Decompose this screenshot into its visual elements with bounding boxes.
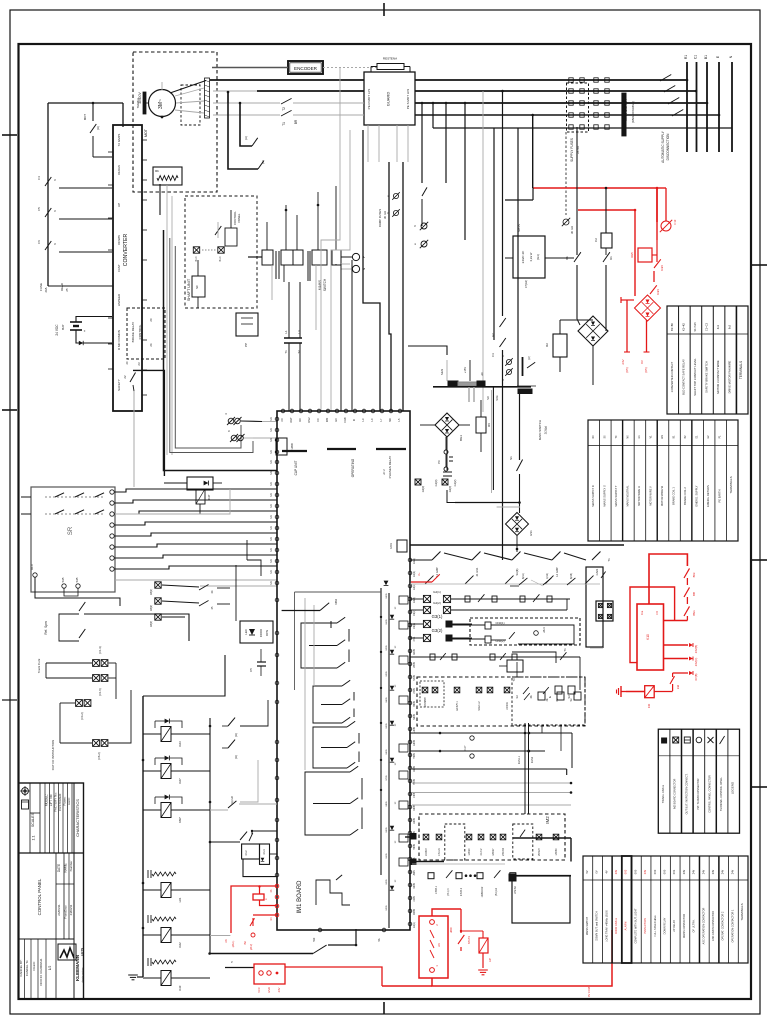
red wire main horiz [533,187,657,189]
svg-text:VCC: VCC [257,987,261,993]
wire f4 [47,189,49,207]
wire corner c [402,162,404,411]
svg-text:KM7: KM7 [178,817,182,823]
svg-text:L1: L1 [284,330,288,334]
svg-text:G3(1): G3(1) [413,584,416,590]
svg-text:25: 25 [65,288,69,292]
IM1 board outline [277,411,410,930]
red left box [254,964,285,993]
svg-text:k4f: k4f [489,958,492,962]
wire drop x446 [445,102,448,183]
wire bottom run3 [210,936,254,968]
svg-text:24V: 24V [722,869,725,874]
svg-text:F6: F6 [37,240,41,244]
red K10 right bottom wire [664,616,688,621]
svg-text:K4F: K4F [178,985,182,990]
svg-text:(B.1) 4: (B.1) 4 [447,888,450,896]
red contact chain [650,255,664,295]
relay K47A edge [390,540,407,552]
red relay gnd [478,953,492,975]
svg-text:Sd: Sd [567,695,571,699]
converter box [113,125,142,411]
capacitor C2 box [594,187,612,255]
svg-text:PE EARTH: PE EARTH [718,489,722,502]
svg-text:Rb: Rb [155,169,159,173]
svg-text:S605: S605 [386,749,388,755]
wire bar drop [519,392,521,460]
CN2 dashed box [470,618,580,645]
svg-text:(C6-2): (C6-2) [97,752,101,759]
svg-text:KA7: KA7 [178,778,182,784]
svg-text:28/4.27: 28/4.27 [539,847,541,855]
contact T1 on W [281,98,364,104]
mains contact N [672,110,720,117]
svg-text:OPERATION CONTACTOR 1: OPERATION CONTACTOR 1 [731,909,734,943]
wire psu vert [227,92,229,103]
svg-text:MOT: MOT [83,114,87,121]
row G2(1) [410,590,570,603]
svg-text:A7.2: A7.2 [382,469,386,475]
svg-text:3,2a W: 3,2a W [529,252,533,261]
svg-text:LED: LED [244,629,248,634]
contact F4 [37,176,57,186]
red wire IM1 left [225,886,277,950]
svg-text:EMERG. SUPPLY: EMERG. SUPPLY [695,485,699,506]
guard bottom gray pins [368,125,408,162]
svg-text:SAFETY: SAFETY [117,379,121,391]
svg-text:S305: S305 [386,905,388,911]
svg-text:TRAVEL CABLE: TRAVEL CABLE [662,784,665,803]
svg-text:BG1: BG1 [459,435,463,441]
red K10 right wires [664,643,699,666]
svg-text:N223: N223 [440,368,444,375]
IM1 inner tiny labels [386,593,388,911]
junction dots brake [227,91,242,105]
psu 24 box [505,224,574,288]
motor M1 circle [149,90,176,119]
svg-text:SHAFT UNIT: SHAFT UNIT [187,278,191,301]
svg-text:C8(2): C8(2) [150,605,153,611]
svg-text:M905: M905 [413,908,416,915]
svg-text:MAINS SUPPLY T: MAINS SUPPLY T [614,485,618,507]
svg-text:1/2090: 1/2090 [469,848,471,856]
IM1 bottom pins [313,928,386,942]
svg-text:(C1-3): (C1-3) [98,646,102,653]
svg-text:GUARD: GUARD [386,92,391,107]
svg-text:NO: NO [487,396,490,400]
SR pins [30,490,114,588]
IM2 inner dashed [420,681,444,707]
svg-text:OPERATING: OPERATING [351,458,355,477]
wire drop x518 [517,128,519,386]
svg-text:MAINS NEUTRAL: MAINS NEUTRAL [625,485,629,507]
svg-text:2B05: 2B05 [413,662,416,668]
svg-text:B6f: B6f [692,592,696,596]
IM1 inner pinboxes [399,596,408,866]
svg-text:MAINS SWITCH: MAINS SWITCH [586,917,589,936]
K47 resistor [196,489,211,504]
control panel sw label [233,211,241,225]
svg-text:FU806: FU806 [291,443,294,451]
svg-text:Track Cont: Track Cont [37,659,41,674]
svg-text:BLD CONTACT SAFE RELAY: BLD CONTACT SAFE RELAY [681,359,685,395]
svg-text:TERMINALS: TERMINALS [740,903,744,920]
svg-text:K47A: K47A [390,543,393,549]
terminal bar drops [440,360,484,381]
svg-text:C7(G1): C7(G1) [525,280,528,288]
svg-text:24V: 24V [277,987,281,992]
red right sub [450,909,471,951]
svg-text:A0: A0 [480,372,484,376]
svg-text:G3(1): G3(1) [432,614,443,619]
logo KLEEMANN LIFTS [58,944,84,983]
terminal bar gray [458,382,477,386]
IM1 left pin labels [270,417,273,585]
svg-text:C1=C2: C1=C2 [705,322,709,331]
trim mark bottom [383,1002,385,1014]
svg-text:S45: S45 [75,577,79,582]
SR label [68,526,74,535]
svg-text:S105: S105 [386,619,388,625]
shaft unit dashed box [185,196,257,308]
svg-text:MOTOR WIRE V: MOTOR WIRE V [648,486,652,506]
cap c5 [249,649,266,676]
svg-text:K1: K1 [609,256,613,260]
svg-text:KLEEMANN: KLEEMANN [75,954,80,981]
caps P6 [437,437,453,471]
svg-text:D0: D0 [298,418,302,422]
res R6 [476,400,491,452]
svg-text:G2(2): G2(2) [413,571,416,577]
svg-text:OPERAT. CONTACTOR 2: OPERAT. CONTACTOR 2 [722,911,725,941]
svg-text:MOT: MOT [144,128,148,137]
lamp pair 1 [37,646,108,673]
svg-text:(B.1)16: (B.1)16 [495,887,498,896]
svg-text:IM2: IM2 [545,816,550,824]
svg-text:24V: 24V [693,869,696,874]
red contact k4d [670,673,680,691]
svg-text:PE R MOT LP1: PE R MOT LP1 [367,88,371,109]
nc symbols pair [378,192,400,227]
encoder label [294,66,318,71]
bus N right [415,114,719,116]
svg-text:C1: C1 [694,55,698,59]
suppressor wires [248,257,352,264]
svg-text:0V COM: 0V COM [587,987,591,997]
svg-text:G1(3): G1(3) [434,480,438,487]
row751 [410,750,545,759]
Sd verts [517,662,561,751]
red A6 top wire [432,909,461,916]
mains phase labels [684,55,733,59]
svg-text:K4/3: K4/3 [660,265,664,271]
svg-text:PANEL: PANEL [237,213,241,222]
wire brake loop outer [228,92,258,169]
svg-text:MODEL:: MODEL: [45,794,49,806]
svg-text:24V: 24V [621,359,625,364]
power pack box [236,313,258,347]
wire corner a [363,130,380,411]
red bus left [285,967,432,986]
svg-text:1/S57.1: 1/S57.1 [435,885,438,894]
terminal bar right [477,381,485,386]
IM1 top pin labels [280,417,401,423]
svg-text:MAINS SUPPLY R: MAINS SUPPLY R [591,485,595,507]
svg-text:T2: T2 [282,107,286,111]
svg-text:BLD: BLD [219,256,222,261]
IM2b dashed box [419,814,565,860]
svg-text:CONVERTER CONTACT: CONVERTER CONTACT [670,361,674,392]
red bottom labels [587,987,591,997]
svg-text:(K5): (K5) [644,367,648,372]
svg-text:G2(1): G2(1) [433,590,441,594]
svg-text:24V: 24V [683,869,686,874]
svg-text:MAIN SWITCH: MAIN SWITCH [538,420,542,440]
converter right ticks [142,140,147,395]
svg-text:PE S MOT LP2: PE S MOT LP2 [406,88,410,109]
testpoint N [341,265,366,272]
title block characteristics header [75,799,80,837]
bus W gray segment [213,102,280,104]
svg-text:G2(1): G2(1) [413,558,416,564]
svg-text:OF ULTRA.: OF ULTRA. [693,919,696,932]
svg-text:L905: L905 [413,896,416,902]
svg-text:A6.3: A6.3 [542,627,546,633]
svg-text:COMPLETE WITH BUT. LIGHT: COMPLETE WITH BUT. LIGHT [634,908,637,943]
OUT row [428,870,571,897]
title block field labels [45,792,72,812]
red relay K45 [630,240,657,262]
red relay small [460,930,488,953]
svg-text:F3: F3 [491,353,495,357]
IM1 inner bottom loop [316,875,350,905]
trim mark top [383,3,385,16]
svg-text:INT. TERMO CONNECTOR: INT. TERMO CONNECTOR [697,778,700,809]
svg-text:CHARACTERISTICS: CHARACTERISTICS [75,799,80,837]
svg-text:20: 20 [149,318,153,322]
shaft contact1 [215,222,221,238]
row1 right box [586,558,611,647]
wire bottom junctions [208,944,357,955]
svg-text:IM1 BOARD: IM1 BOARD [297,880,303,914]
contactor block Q1 [364,57,415,126]
svg-text:24/2C 2C: 24/2C 2C [521,250,525,264]
label mains sw2 [318,278,327,291]
svg-text:5V: 5V [586,870,589,873]
svg-text:21 GS1: 21 GS1 [475,567,479,576]
svg-text:Ref. Spm: Ref. Spm [44,621,48,635]
red contacts right [684,568,690,616]
contact brake A2 [258,160,265,169]
svg-text:CONTROL PANEL: CONTROL PANEL [37,878,42,915]
svg-text:OUT: OUT [289,417,293,423]
svg-text:F1F: F1F [673,219,677,224]
svg-text:2/S74.2: 2/S74.2 [460,887,463,896]
wire switch down [518,474,521,513]
svg-text:2/USB08: 2/USB08 [425,697,427,707]
mains filter block [567,78,627,136]
svg-text:SUPPLY FUSES: SUPPLY FUSES [570,138,574,162]
wire psu drop [576,127,578,255]
svg-text:R6: R6 [487,423,491,427]
svg-text:K10: K10 [646,634,650,640]
red K small left [253,885,277,905]
svg-text:G2(2): G2(2) [433,601,441,605]
svg-text:C8(0): C8(0) [150,621,153,627]
bridge ES1 [506,513,534,553]
suppressor feed wires [267,186,336,250]
wire bundle 1 [115,489,230,514]
svg-text:DOWN RELAY: DOWN RELAY [664,917,667,934]
svg-text:2/M/S2: 2/M/S2 [514,886,517,894]
svg-text:H0: H0 [334,418,338,422]
svg-text:ES1: ES1 [529,530,533,536]
svg-text:S505: S505 [386,723,388,729]
svg-text:R1: R1 [684,55,688,59]
svg-text:S805: S805 [386,801,388,807]
caps P6b [434,472,457,486]
svg-text:DOWN BUT. and SWITCH: DOWN BUT. and SWITCH [596,911,599,941]
brake relay dashed box [127,308,165,359]
svg-text:SAFETY BRAKE SWITCH: SAFETY BRAKE SWITCH [705,361,709,393]
mains filter labels [570,99,635,162]
motor termal bar [136,92,149,114]
svg-text:9A/S75.1: 9A/S75.1 [456,701,459,711]
svg-text:T1: T1 [563,648,567,652]
svg-text:0V: 0V [640,360,644,364]
IM1 inner loop 2 [313,680,354,723]
wire x504 down [502,350,504,560]
svg-text:FU?: FU? [464,745,467,750]
svg-text:3M~: 3M~ [158,99,164,109]
bridge wires [420,425,470,470]
red nc symbol [657,188,677,232]
battery wires [76,317,112,346]
bus brake gray [213,114,280,116]
svg-text:ALARM: ALARM [625,922,628,931]
svg-text:FrancEsco: FrancEsco [64,905,68,919]
svg-text:S/G2-1.2: S/G2-1.2 [479,701,481,711]
bus R right [415,79,687,81]
svg-text:24V: 24V [712,869,715,874]
svg-text:4x1: 4x1 [716,324,720,329]
row G3(1) [410,614,472,628]
red arrow row3 [673,671,698,680]
brake relay labels [131,318,153,347]
wire f6 to conv [48,253,112,286]
bus V to contactor [213,90,364,92]
title block grid [19,783,84,999]
converter side ticks [108,152,113,369]
svg-text:S1=S15: S1=S15 [693,322,697,332]
svg-text:KA2: KA2 [178,942,182,948]
shaft lamp row [193,247,224,262]
wire bottom run1 [210,929,356,954]
bridge G1 right [578,316,608,346]
earth leak dashed [562,132,574,234]
svg-text:H905: H905 [413,843,416,849]
svg-text:K664: K664 [335,598,338,604]
svg-text:MAINS SUPPLY S: MAINS SUPPLY S [602,485,606,507]
nc symbols pair2 [413,222,428,248]
wire drop x465 [464,102,467,240]
svg-text:B1=B0: B1=B0 [670,323,674,331]
wire k47 down [199,504,201,514]
svg-text:1:1: 1:1 [32,836,36,841]
svg-text:DATE: DATE [57,864,61,872]
supply fuse box [192,260,205,308]
svg-text:1/MSCN.2: 1/MSCN.2 [482,886,484,897]
transformer T1 [284,330,302,354]
dashed box Sd [512,677,585,725]
svg-text:A6: A6 [437,943,441,947]
svg-text:TERMINAL CONTROL PANEL: TERMINAL CONTROL PANEL [720,776,723,811]
svg-text:Number: Number [69,861,73,872]
IM1 board label [297,880,303,914]
svg-text:DISCONNECTION: DISCONNECTION [666,133,670,160]
red K10 top wire [649,554,687,604]
LED door box [240,621,273,643]
svg-text:S705: S705 [413,675,416,681]
svg-text:C8(1): C8(1) [150,589,153,595]
contact x504 [491,318,506,357]
svg-text:20A: 20A [44,287,48,292]
nc G2 pair [415,479,452,492]
contact T2 on brake [281,110,364,116]
fuse label [39,283,69,293]
svg-text:TERMINALS: TERMINALS [739,361,743,379]
svg-text:MAIN SWITCH: MAIN SWITCH [624,99,628,121]
terminal bar line [433,386,531,388]
svg-text:FILED:: FILED: [32,961,36,970]
ladder contact2 [210,796,277,810]
suppressor drop wires [272,264,336,330]
svg-text:elevator systems: elevator systems [81,967,84,982]
svg-text:BLD: BLD [195,256,198,261]
svg-text:D1a: D1a [641,610,644,615]
title block bottom rows [19,958,52,985]
svg-text:OUT OF INSTRUCTION: OUT OF INSTRUCTION [51,740,55,770]
svg-text:OPN: OPN [265,630,269,636]
svg-text:CONVERTER: CONVERTER [123,234,129,267]
IM1 right pin labels [413,558,416,928]
red fuse right wire [654,691,672,693]
svg-text:MOTOR WIRE U: MOTOR WIRE U [637,486,641,506]
SR internal contacts [45,493,105,497]
svg-text:R2: R2 [545,343,549,347]
svg-text:H10: H10 [313,937,316,942]
red bridge stub left [621,297,634,303]
wire drop x494 [493,128,495,340]
trim mark left 3 [2,699,17,701]
red K10 label [641,610,659,640]
ladder wire mid [240,760,258,802]
svg-text:2705: 2705 [413,688,416,694]
svg-text:A1.0: A1.0 [30,564,34,570]
svg-text:1/6060: 1/6060 [556,848,558,856]
brake resistor on contactor [371,64,410,73]
svg-text:LIFTS: LIFTS [80,948,84,956]
Sd contents [515,692,581,700]
svg-text:(C4-2): (C4-2) [80,712,84,719]
wires mid verticals [236,540,261,621]
red bridge out right [640,320,650,373]
svg-text:T2 GMP1: T2 GMP1 [117,133,121,146]
svg-text:OUT BUT. INSPECTION CONNECT.: OUT BUT. INSPECTION CONNECT. [685,773,688,814]
svg-text:RESTENA: RESTENA [383,57,397,61]
svg-text:TERMAL: TERMAL [136,97,140,108]
IM1 fuse box edge [276,438,294,455]
